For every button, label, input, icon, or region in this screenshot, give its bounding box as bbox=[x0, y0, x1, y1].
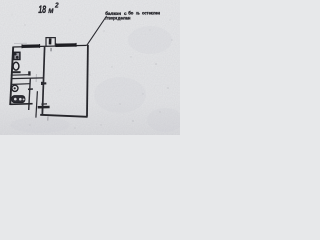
wash basin circle bbox=[12, 85, 18, 91]
bottom wall of main room bbox=[40, 115, 87, 117]
balcony/vent protrusion above top wall bbox=[46, 38, 55, 47]
svg-text:ль: ль bbox=[136, 11, 140, 16]
window bar (room window) bbox=[56, 43, 77, 47]
twin-burner unit box bbox=[12, 96, 25, 103]
svg-text:18: 18 bbox=[38, 4, 47, 16]
door jamb tick on x30 wall bbox=[28, 88, 33, 90]
toilet bowl bbox=[13, 62, 19, 70]
twin unit circle 1 bbox=[14, 98, 17, 101]
stove box bbox=[14, 52, 20, 59]
interior wall x30 (bath/hall) bbox=[29, 79, 31, 111]
window bar (left, kitchen window) bbox=[22, 44, 40, 48]
top wall bbox=[13, 45, 87, 47]
paper speckle noise bbox=[12, 15, 173, 129]
basin center dot bbox=[14, 87, 16, 89]
stub below bottom wall near entry bbox=[47, 117, 49, 121]
stove burner dots bbox=[14, 53, 17, 56]
counter line in bath bbox=[12, 83, 30, 86]
entry threshold thick tick bbox=[38, 106, 50, 109]
door jamb block at end of upper partition bbox=[28, 71, 30, 75]
toilet tank bar bbox=[12, 71, 21, 73]
twin unit right notch bbox=[23, 98, 25, 100]
mid partition of hall bbox=[36, 91, 38, 117]
left outer wall bbox=[10, 47, 13, 105]
interior wall between service rooms and main room bbox=[42, 47, 44, 115]
partition upper line (kitchen/bath) bbox=[11, 74, 30, 77]
svg-text:остеклен: остеклен bbox=[142, 11, 160, 16]
window bar1 end caps bbox=[21, 44, 23, 48]
partition lower line bbox=[11, 77, 44, 80]
door jamb dark block bbox=[41, 82, 43, 85]
handwritten area label "18 м²" bbox=[38, 1, 58, 16]
svg-text:м: м bbox=[48, 5, 54, 15]
radiator stub below room window bbox=[50, 48, 52, 52]
entry vertical jamb bbox=[41, 100, 43, 113]
window bar2 end caps bbox=[55, 43, 57, 47]
protrusion inner thick bar bbox=[49, 38, 52, 44]
door jamb tick on main interior wall bbox=[41, 82, 46, 84]
svg-text:делан: делан bbox=[118, 16, 131, 21]
typed annotation, line 1 bbox=[105, 10, 160, 21]
leader line (diagonal) from annotation to room corner bbox=[87, 16, 107, 45]
ghost mark above top wall bbox=[14, 42, 27, 44]
entry threshold thin tick bbox=[41, 103, 47, 105]
svg-text:2: 2 bbox=[54, 1, 59, 10]
twin unit circle 2 bbox=[19, 98, 22, 101]
right wall bbox=[86, 45, 89, 117]
bathroom bottom wall bbox=[10, 103, 32, 106]
ghost line above hall partition bbox=[35, 74, 37, 82]
paper background bbox=[0, 0, 180, 135]
